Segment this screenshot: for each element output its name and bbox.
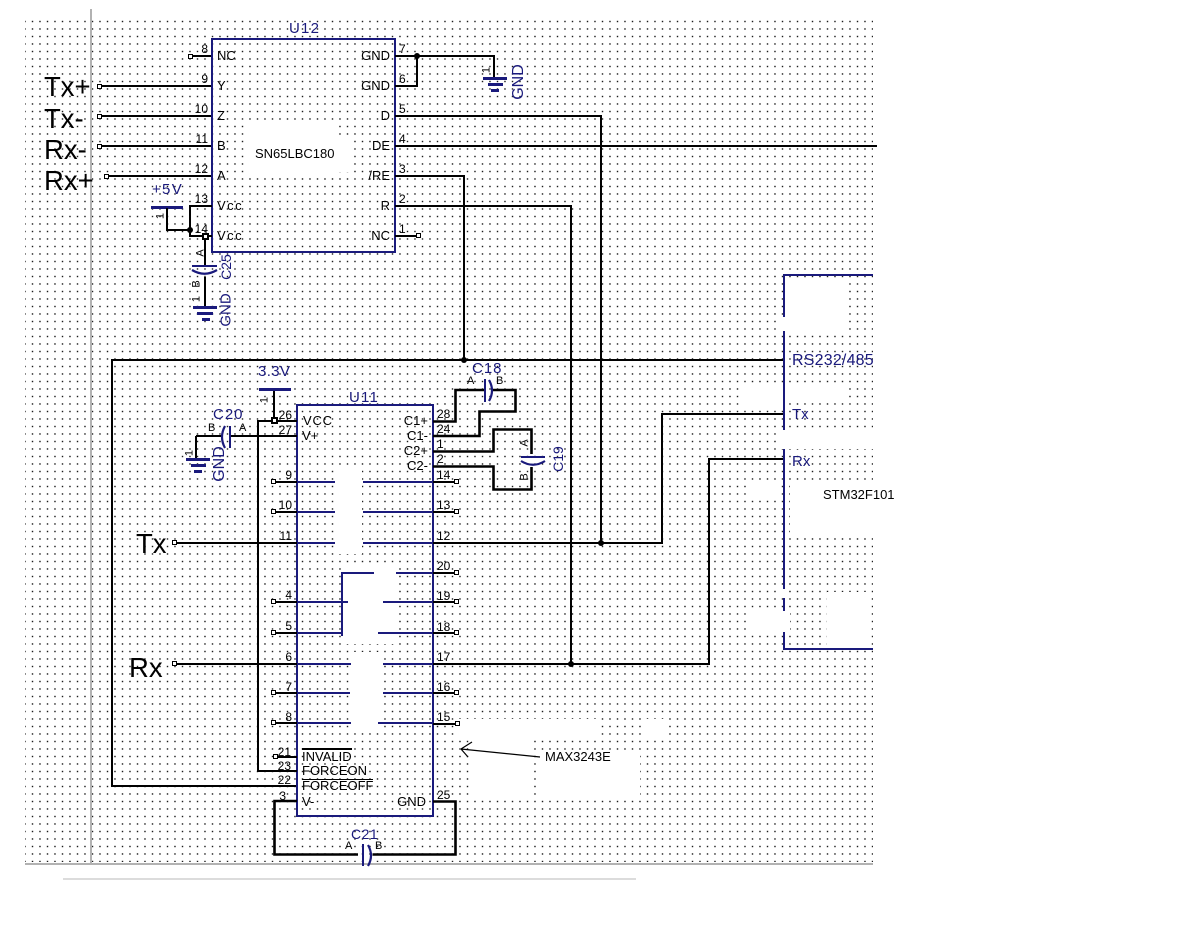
junction +5V tee — [187, 227, 193, 233]
terminal square Rx+ — [104, 174, 109, 179]
terminal square pin16 U11 — [454, 690, 459, 695]
white patch inside U12 right part — [334, 138, 352, 172]
wire net to U11 pin22 — [111, 785, 297, 787]
junction /RE to RS232 net — [461, 357, 467, 363]
pin number 5 right U12 — [399, 103, 406, 115]
white gap in STM32 box edge 4 — [750, 611, 790, 632]
ground bar2 under C20 — [191, 464, 206, 467]
pin name NC 1 — [90, 229, 390, 242]
U12 part name SN65LBC180 — [255, 147, 335, 160]
pin name /RE — [90, 169, 390, 182]
3.3V power bar — [259, 388, 291, 391]
ground pin 1 rotated C25 — [192, 296, 203, 302]
pin number 12 U11 — [437, 530, 450, 542]
white band inside U11 lower — [352, 652, 382, 733]
terminal square pin7 U11 — [271, 690, 276, 695]
square pad pin14 C25 tap — [202, 233, 209, 240]
white patch above MAX3243E — [459, 719, 600, 736]
pin name Vcc 14 — [217, 229, 243, 242]
internal pin line U11 y663 — [383, 663, 433, 665]
pin number 22 U11 — [0, 774, 291, 786]
wire pin14 stub — [433, 481, 454, 483]
STM32 box bottom edge — [783, 648, 873, 650]
internal pin line U11 y542 — [363, 542, 433, 544]
internal pin line U11 y692 — [297, 692, 350, 694]
white band inside U11 upper — [336, 470, 362, 554]
C19 pin A rotated — [520, 439, 531, 446]
terminal square pin15 U11 — [455, 721, 460, 726]
internal pin line U11 y692 — [383, 692, 433, 694]
wire pin16 stub — [433, 692, 454, 694]
wire pin13 to pin14 connector — [189, 205, 191, 237]
pin name B — [217, 139, 226, 152]
STM32 box left edge — [783, 274, 785, 650]
port label Tx+ — [44, 73, 91, 101]
pin name VCC — [303, 414, 333, 427]
pin number 26 — [0, 409, 292, 421]
terminal square pin8 U12 — [188, 54, 193, 59]
pin name D — [90, 109, 390, 122]
pin number 27 — [0, 424, 292, 436]
white gap in STM32 box edge 1 — [777, 317, 789, 331]
wire pin18 stub — [433, 632, 454, 634]
terminal square Rx — [172, 661, 177, 666]
C19 pin B rotated — [520, 473, 531, 480]
pin number 6 right U12 — [399, 73, 406, 85]
pin number 3 right U12 — [399, 163, 406, 175]
wire Tx net to STM32 — [661, 413, 785, 415]
pin name Z — [217, 109, 225, 122]
wire pin8 NC stub — [193, 55, 211, 57]
wire pin26 stub — [258, 420, 297, 422]
ground GND label C20 — [212, 446, 228, 482]
pin name C2- — [128, 459, 428, 472]
capacitor C20 straight plate — [229, 426, 231, 448]
wire 3.3V down to pin26 — [273, 391, 275, 421]
wire Rx net vertical — [708, 458, 710, 665]
port label Tx- — [44, 105, 84, 133]
internal pin line U11 y632 — [297, 632, 343, 634]
pin name FORCEON — [302, 764, 367, 777]
white patch right lower in box — [827, 592, 871, 645]
wire pin4 stub — [276, 601, 297, 603]
capacitor C19 curved plate — [517, 458, 549, 472]
wire Tx net vertical — [661, 413, 663, 544]
wire C20 to ground — [195, 436, 197, 459]
pin number 11 — [0, 133, 208, 145]
ground pin1 rotated C20 — [185, 450, 196, 456]
pin number 13 — [0, 193, 208, 205]
ground bar3 under C20 — [194, 470, 202, 473]
+5V power bar — [151, 206, 183, 209]
wire pin23 stub — [257, 770, 297, 772]
C19 label rotated — [551, 446, 565, 472]
white gap in STM32 box edge 2 — [778, 430, 875, 449]
wire pin2 R stub — [395, 205, 572, 207]
pin name FORCEOFF — [302, 779, 374, 792]
wire D net vertical — [600, 115, 602, 544]
C21 pin B label — [375, 841, 382, 852]
terminal square pin13 U11 — [454, 509, 459, 514]
sheet bottom faint gray line — [63, 878, 636, 880]
overline INVALID — [302, 748, 352, 750]
pin number 21 U11 — [0, 746, 291, 758]
capacitor C18 curved plate — [486, 375, 500, 407]
wire pin5 stub — [276, 632, 297, 634]
capacitor C20 curved plate — [214, 422, 230, 452]
wire pin4 DE net long — [395, 145, 877, 147]
internal pin line U11 y572 — [396, 572, 433, 574]
pin number 1 C2+ — [437, 438, 444, 450]
terminal square pin20 U11 — [454, 570, 459, 575]
port label Rx- — [44, 136, 87, 164]
wire pin14 stub — [189, 235, 212, 237]
capacitor C18 straight plate — [484, 379, 486, 402]
U12 designator label — [289, 21, 320, 36]
terminal square pin5 U11 — [271, 630, 276, 635]
net label RS232/485 — [792, 353, 874, 369]
junction pin7 pin6 — [414, 53, 420, 59]
wire +5V down — [166, 208, 168, 230]
wire RS232 net left vertical — [111, 359, 113, 787]
internal pin line U11 y511 — [297, 511, 335, 513]
terminal square pin10 U11 — [271, 509, 276, 514]
pin number 13 U11 — [437, 499, 450, 511]
pin name V+ — [302, 429, 318, 442]
capacitor C25 pin A rotated — [196, 249, 207, 256]
pin name A — [217, 169, 226, 182]
STM32F101 label — [823, 488, 895, 501]
pin number 6 U11 — [0, 651, 292, 663]
pin number 19 U11 — [437, 590, 450, 602]
pin name Y — [217, 79, 226, 92]
pin number 8 — [0, 43, 208, 55]
C20 pin A label — [239, 423, 246, 434]
internal pin line U11 y481 — [297, 481, 335, 483]
C18 pin B label — [496, 376, 503, 387]
ground bar1 under C20 — [186, 458, 210, 461]
internal pin line U11 y722 — [378, 722, 433, 724]
wire C18 loop — [430, 385, 522, 440]
pin name R — [90, 199, 390, 212]
wire Rx net to STM32 — [708, 458, 785, 460]
wire C25 to ground — [204, 277, 206, 307]
white patch below RS232 label — [789, 388, 848, 403]
capacitor C19 straight plate — [521, 456, 545, 458]
pin name GND 7 — [90, 49, 390, 62]
pin number 17 U11 — [437, 651, 450, 663]
pin number 4 right U12 — [399, 133, 406, 145]
white patch inside U12 — [244, 120, 334, 175]
wire GND symbol drop — [493, 56, 495, 78]
pin number 23 U11 — [0, 760, 291, 772]
pin number 7 U11 — [0, 681, 292, 693]
wire pin13 stub — [433, 511, 454, 513]
pin number 9 U11 — [0, 469, 292, 481]
pin name C1- — [128, 429, 428, 442]
C20 label — [213, 407, 244, 422]
terminal square Rx- — [97, 144, 102, 149]
sheet dotted grid background — [25, 16, 873, 862]
white band inside U11 middle — [346, 566, 394, 644]
white patch left of box small — [750, 484, 776, 499]
capacitor C25 curved plate — [188, 268, 221, 280]
op IC U12 box — [211, 38, 396, 253]
pin number 14 — [0, 223, 208, 235]
3.3V net label — [258, 364, 290, 379]
ground GND label C25 — [219, 293, 234, 326]
capacitor C25 label — [219, 254, 233, 280]
wire C19 loop — [430, 425, 540, 495]
ground bar2 under C25 — [197, 312, 213, 315]
pin number 10 — [0, 103, 208, 115]
ground bar3 top right — [491, 89, 499, 92]
wire Tx+ to pin9 — [102, 85, 211, 87]
white patch left of MAX3243E — [472, 736, 531, 795]
internal pin line U11 y663 — [297, 663, 351, 665]
internal connector line U11 — [341, 572, 343, 636]
sheet vertical gray divider line — [90, 9, 92, 864]
pin number 24 — [437, 423, 450, 435]
terminal square Tx- — [97, 114, 102, 119]
pin number 12 — [0, 163, 208, 175]
ground bar1 top right — [483, 77, 507, 80]
terminal square pin8 U11 — [271, 720, 276, 725]
pin name INVALID — [302, 750, 352, 763]
internal pin line U11 y481 — [363, 481, 433, 483]
3.3V pin1 rotated — [260, 397, 271, 403]
op IC U11 box — [296, 404, 434, 817]
U11 designator label — [349, 390, 379, 405]
+5V net label — [152, 182, 183, 197]
wire pin8 stub — [276, 722, 297, 724]
internal pin line U11 y542 — [297, 542, 335, 544]
terminal square Tx+ — [97, 84, 102, 89]
pin name GND 25 — [126, 795, 426, 808]
internal pin line U11 y632 — [378, 632, 433, 634]
white patch STM32 box top — [788, 283, 848, 331]
pin number 11 U11 — [0, 530, 292, 542]
terminal square pin21 U11 — [273, 754, 278, 759]
capacitor C25 top plate — [192, 265, 217, 267]
annotation MAX3243E — [545, 750, 611, 763]
wire Rx+ to pin12 — [109, 175, 211, 177]
pin name V- — [302, 795, 314, 808]
terminal square pin14 U11 — [454, 479, 459, 484]
wire +5V to junction — [166, 229, 191, 231]
wire pin1 NC stub — [395, 235, 416, 237]
wire pin15 stub — [433, 723, 455, 725]
pin number 1 right U12 — [399, 223, 406, 235]
pin name NC — [217, 49, 236, 62]
internal pin line U11 y511 — [363, 511, 433, 513]
port label Rx — [129, 654, 163, 682]
wire Rx to pin6 — [177, 663, 297, 665]
internal pin line U11 y722 — [297, 722, 351, 724]
C18 pin A label — [467, 376, 474, 387]
white patch left of STM32 box — [739, 388, 783, 409]
junction D net to U11 pin12 — [598, 540, 604, 546]
capacitor C21 curved plate — [364, 840, 378, 872]
pin number 9 — [0, 73, 208, 85]
pin number 16 U11 — [437, 681, 450, 693]
pin number 3 U11 — [0, 790, 286, 802]
terminal square pin1 U12 — [416, 233, 421, 238]
wire pin19 stub — [433, 601, 454, 603]
wire Rx- to pin11 — [102, 145, 211, 147]
pin number 5 U11 — [0, 620, 292, 632]
ground bar1 under C25 — [193, 306, 217, 309]
pin number 14 U11 — [437, 469, 450, 481]
STM32 box top edge — [783, 274, 873, 276]
capacitor C21 straight plate — [362, 844, 364, 866]
terminal square pin19 U11 — [454, 599, 459, 604]
sheet bottom gray border line — [25, 863, 873, 865]
terminal square pin4 U11 — [271, 599, 276, 604]
C21 pin A label — [345, 841, 352, 852]
wire pin21 stub — [278, 756, 297, 758]
pin name DE — [90, 139, 390, 152]
white patch right of pin15 stub — [642, 719, 665, 736]
pin number 8 U11 — [0, 711, 292, 723]
terminal square pin9 U11 — [271, 479, 276, 484]
wire pin5 D net — [395, 115, 602, 117]
pin number 28 — [437, 408, 450, 420]
terminal square Tx — [172, 540, 177, 545]
pin number 20 U11 — [437, 560, 450, 572]
internal pin line U11 y572 — [342, 572, 374, 574]
square pad pin26 tap — [271, 417, 278, 424]
wire Tx- to pin10 — [102, 115, 211, 117]
pin number 2 right U12 — [399, 193, 406, 205]
wire pin9 stub — [276, 481, 297, 483]
pin number 25 U11 — [437, 789, 450, 801]
white patch below MAX3243E — [539, 752, 640, 795]
wire RS232 net horizontal — [111, 359, 785, 361]
capacitor C25 pin B rotated — [192, 280, 203, 287]
pin number 18 U11 — [437, 621, 450, 633]
internal pin line U11 y601 — [297, 601, 348, 603]
ground bar2 top right — [488, 83, 503, 86]
C20 pin B label — [208, 423, 215, 434]
wire pin14 to C25 — [204, 240, 206, 266]
pin name Vcc 13 — [217, 199, 243, 212]
wire Tx to pin11 — [177, 542, 297, 544]
net label Tx STM32 — [792, 407, 809, 422]
ground GND label top right — [511, 64, 527, 100]
wire pin27 V+ — [231, 435, 297, 437]
wire /RE vertical — [463, 175, 465, 361]
wire pin10 stub — [276, 511, 297, 513]
white patch STM32F101 area — [790, 484, 895, 534]
net label Rx STM32 — [792, 454, 810, 469]
C18 label — [472, 361, 503, 376]
wire pin20 stub — [433, 572, 454, 574]
wire pin7 to pin6 — [416, 55, 418, 87]
wire pin7 GND net — [395, 55, 495, 57]
wire pin13 stub — [189, 205, 212, 207]
arrow pointing to U11 — [455, 738, 550, 763]
pin name GND 6 — [90, 79, 390, 92]
wire R net vertical — [570, 205, 572, 666]
pin number 15 U11 — [437, 711, 450, 723]
pin number 2 C2- — [437, 453, 444, 465]
wire pin26 to pin23 vertical — [257, 420, 259, 772]
junction R net to U11 pin17 — [568, 661, 574, 667]
wire C20 left — [196, 435, 222, 437]
port label Tx — [136, 530, 167, 558]
wire pin12 Tx net — [433, 542, 663, 544]
overline FORCEOFF — [302, 779, 373, 781]
pin name C2+ — [128, 444, 428, 457]
+5V pin 1 rotated — [156, 213, 167, 219]
port label Rx+ — [44, 167, 94, 195]
wire pin3 /RE stub — [395, 175, 465, 177]
wire pin17 Rx net — [433, 663, 710, 665]
internal pin line U11 y601 — [383, 601, 433, 603]
pin number 10 U11 — [0, 499, 292, 511]
white gap in STM32 box edge 3 — [777, 589, 789, 598]
pin name C1+ — [128, 414, 428, 427]
ground pin1 rotated top — [482, 67, 493, 73]
C21 label — [351, 827, 378, 841]
wire pin7 stub — [276, 692, 297, 694]
pin number 7 right U12 — [399, 43, 406, 55]
wire V- GND C21 loop — [270, 795, 462, 861]
wire pin6 stub — [395, 85, 417, 87]
pin number 4 U11 — [0, 589, 292, 601]
terminal square pin18 U11 — [454, 630, 459, 635]
ground bar3 under C25 — [202, 318, 210, 321]
